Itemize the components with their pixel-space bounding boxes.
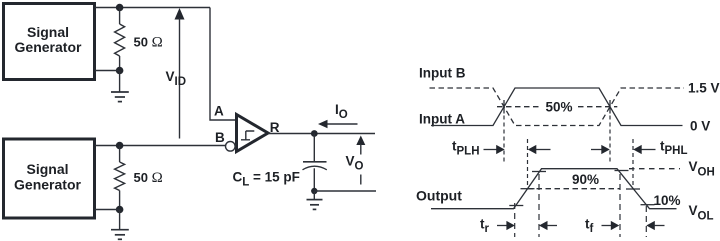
waveform Output [431,169,677,209]
svg-text:R: R [270,120,280,135]
guide line tf left (90%) [619,174,621,237]
junction bottom of R2 [116,206,124,214]
tick output fall 90% [615,170,629,172]
svg-text:1.5 V: 1.5 V [688,80,720,95]
svg-text:50 Ω: 50 Ω [134,170,163,186]
guide line output rise 50% [527,139,529,189]
junction top of R1 [116,4,124,12]
receiver U1 [237,115,269,152]
junction output node [311,130,318,137]
guide line tr left (10%) [514,203,516,237]
probe VID arrow [175,8,185,139]
wire SG1 bottom [95,70,120,72]
capacitor CL [303,134,327,192]
inversion bubble on input B [226,142,236,152]
dimension tPLH [452,139,551,158]
current IO arrow [318,120,358,128]
wire bottom right [314,190,376,192]
tick output fall 10% [641,204,655,206]
dimension tf [585,216,665,235]
svg-text:50 Ω: 50 Ω [134,35,163,51]
svg-text:Input B: Input B [419,65,466,80]
guide line output fall 50% [632,139,634,189]
dimension tPHL [591,138,688,157]
junction bottom of R1 [116,67,124,75]
svg-text:10%: 10% [654,193,681,208]
resistor R2 [115,146,125,210]
wire down to input A [210,8,237,121]
svg-text:Input A: Input A [419,112,465,127]
signal generator SG1 [4,4,95,80]
guide line from crossing 1 [503,116,505,163]
waveform Input B (dashed) [430,88,685,126]
tick output rise 90% [532,171,546,173]
ground G3 [307,191,323,209]
crossing mark 1 [503,100,505,114]
label 50% [541,99,577,115]
guide line tf right (10%) [645,206,647,237]
wire receiver output [268,133,375,135]
dimension tr [480,216,557,235]
svg-text:50%: 50% [545,99,572,114]
50% reference dashed line [497,106,617,108]
svg-text:Generator: Generator [15,39,82,55]
guide line from crossing 2 [609,116,611,163]
svg-text:Signal: Signal [27,24,69,40]
wire SG2 top to input B [95,145,226,147]
svg-text:Signal: Signal [26,161,68,177]
waveform Input A (solid) [431,88,683,126]
tick output rise 10% [509,205,523,207]
svg-text:A: A [214,104,224,119]
guide line tr right (90%) [538,174,540,237]
svg-text:Generator: Generator [14,177,81,193]
svg-text:Output: Output [416,187,462,203]
wire SG1 top output [95,7,210,9]
svg-text:90%: 90% [572,172,599,187]
svg-text:0 V: 0 V [690,118,710,133]
wire SG2 bottom [95,209,120,211]
crossing mark 2 [609,100,611,114]
VOH dashed line [629,168,680,170]
junction bottom node [311,188,317,194]
tick output rise 50% [521,188,535,190]
resistor R1 [115,8,125,71]
junction top of R2 [116,142,124,150]
svg-text:B: B [215,130,225,145]
tick output fall 50% [626,188,640,190]
90% reference dashed line [528,188,621,190]
ground G1 [111,71,129,102]
probe VO arrow [356,136,365,185]
ground G2 [111,210,129,240]
signal generator SG2 [4,139,95,218]
